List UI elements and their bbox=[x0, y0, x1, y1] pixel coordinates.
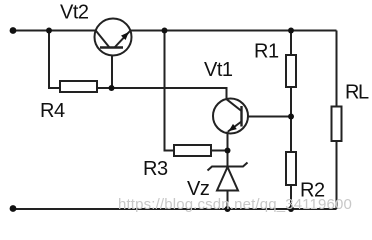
resistor RL bbox=[332, 107, 342, 142]
transistor Vt1 emitter diagonal bbox=[228, 122, 242, 132]
transistor Vt2 emitter diagonal bbox=[115, 31, 131, 48]
junction dot zener top node bbox=[225, 148, 231, 154]
resistor R3 bbox=[174, 145, 211, 156]
wire Vt1 emitter down to zener node bbox=[227, 132, 229, 151]
zener Vz triangle bbox=[217, 167, 238, 191]
transistor Vt1 circle bbox=[213, 99, 248, 134]
terminal dot input bottom bbox=[10, 205, 17, 212]
wire Vt2 base lead bbox=[111, 48, 113, 89]
wire base node to Vt1 collector bbox=[112, 88, 227, 99]
wire R3 right lead bbox=[211, 150, 228, 152]
junction dot divider node bbox=[288, 114, 294, 120]
resistor R2 bbox=[286, 152, 296, 185]
wire top rail right of Vt2 to right corner bbox=[131, 30, 337, 32]
svg-text:Vt2: Vt2 bbox=[60, 2, 89, 24]
wire R2 top lead bbox=[290, 117, 292, 153]
junction dot zener bottom bbox=[225, 206, 231, 212]
svg-text:Vt1: Vt1 bbox=[204, 59, 233, 81]
wire R1 bottom lead bbox=[290, 87, 292, 117]
transistor Vt2 base bar bbox=[100, 46, 123, 48]
wire Vt1 base lead to divider node bbox=[248, 116, 291, 118]
transistor Vt2 collector diagonal bbox=[96, 31, 110, 48]
junction dot R1 top bbox=[288, 28, 294, 34]
resistor R4 bbox=[60, 81, 97, 92]
junction dot Vt2 base node bbox=[109, 85, 115, 91]
svg-text:https://blog.csdn.net/qq_34119: https://blog.csdn.net/qq_34119600 bbox=[118, 196, 352, 213]
zener Vz cathode lead bbox=[227, 151, 229, 167]
wire R2 bottom lead bbox=[290, 185, 292, 209]
zener Vz anode lead bbox=[227, 191, 229, 210]
transistor Vt1 base bar bbox=[240, 106, 242, 127]
wire R4 branch: down from node then to R4 bbox=[49, 31, 60, 89]
svg-text:R3: R3 bbox=[143, 158, 168, 180]
svg-text:R4: R4 bbox=[40, 100, 65, 122]
arrow Vt1 emitter bbox=[229, 124, 237, 131]
wire RL bottom lead bbox=[336, 141, 338, 209]
zener Vz cathode bar with bent tips bbox=[208, 163, 248, 171]
junction dot R2 bottom bbox=[288, 206, 294, 212]
wire bottom rail bbox=[13, 208, 337, 210]
wire R1 top lead bbox=[290, 31, 292, 56]
wire R3 branch vertical bbox=[165, 31, 175, 151]
transistor Vt2 circle bbox=[95, 19, 132, 56]
svg-text:R1: R1 bbox=[254, 41, 279, 63]
resistor R1 bbox=[286, 55, 296, 87]
junction dot R3 branch bbox=[162, 28, 168, 34]
terminal dot input top bbox=[10, 27, 17, 34]
junction dot R4 branch bbox=[46, 28, 52, 34]
wire top rail left bbox=[13, 30, 96, 32]
transistor Vt1 collector diagonal bbox=[227, 99, 242, 111]
wire R4 right lead to base node bbox=[97, 87, 112, 89]
arrow Vt2 emitter bbox=[121, 32, 129, 40]
svg-text:RL: RL bbox=[345, 82, 369, 104]
wire right drop to RL bbox=[336, 31, 338, 107]
